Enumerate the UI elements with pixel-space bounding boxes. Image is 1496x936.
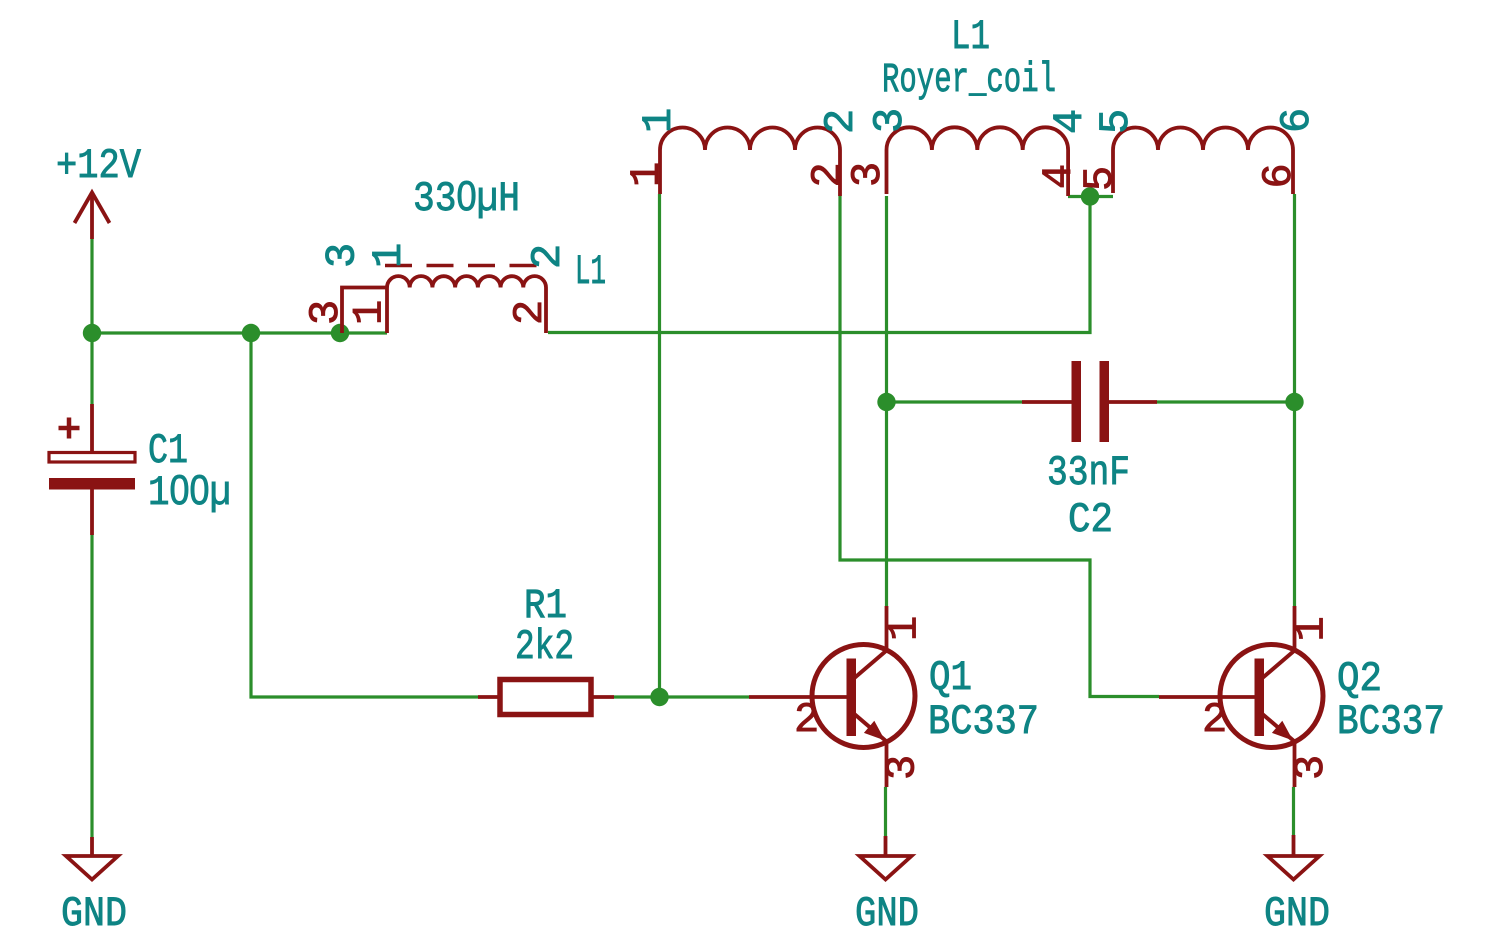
svg-text:1: 1 xyxy=(881,616,929,641)
svg-text:1: 1 xyxy=(623,162,671,187)
svg-text:33nF: 33nF xyxy=(1047,449,1130,497)
svg-text:1: 1 xyxy=(1288,616,1336,641)
svg-text:Q1: Q1 xyxy=(929,654,972,702)
svg-text:3: 3 xyxy=(866,108,914,133)
svg-text:C2: C2 xyxy=(1068,496,1113,544)
svg-text:2k2: 2k2 xyxy=(515,623,574,671)
svg-text:L1: L1 xyxy=(951,13,990,61)
svg-text:L1: L1 xyxy=(575,248,606,296)
svg-text:BC337: BC337 xyxy=(928,698,1039,746)
svg-text:Royer_coil: Royer_coil xyxy=(882,56,1056,104)
svg-text:330µH: 330µH xyxy=(413,172,520,223)
svg-text:4: 4 xyxy=(1046,109,1094,134)
svg-text:3: 3 xyxy=(319,243,367,268)
svg-text:5: 5 xyxy=(1092,109,1140,134)
svg-text:2: 2 xyxy=(1202,696,1227,744)
svg-text:6: 6 xyxy=(1255,163,1303,188)
svg-text:GND: GND xyxy=(61,890,127,936)
svg-text:2: 2 xyxy=(506,300,554,325)
svg-text:GND: GND xyxy=(855,890,919,936)
svg-text:100µ: 100µ xyxy=(148,466,231,517)
svg-text:+12V: +12V xyxy=(56,142,141,190)
svg-text:GND: GND xyxy=(1264,890,1330,936)
svg-text:1: 1 xyxy=(346,300,394,325)
svg-text:3: 3 xyxy=(844,162,892,187)
svg-text:Q2: Q2 xyxy=(1337,655,1382,703)
svg-text:3: 3 xyxy=(302,300,350,325)
svg-text:2: 2 xyxy=(794,696,819,744)
svg-text:2: 2 xyxy=(817,109,865,134)
svg-text:1: 1 xyxy=(365,243,413,268)
svg-text:2: 2 xyxy=(524,244,572,269)
svg-text:5: 5 xyxy=(1076,166,1124,191)
svg-text:6: 6 xyxy=(1273,108,1321,133)
svg-text:1: 1 xyxy=(635,108,683,133)
svg-text:BC337: BC337 xyxy=(1337,698,1445,746)
svg-text:3: 3 xyxy=(1287,755,1335,780)
svg-text:3: 3 xyxy=(879,755,927,780)
